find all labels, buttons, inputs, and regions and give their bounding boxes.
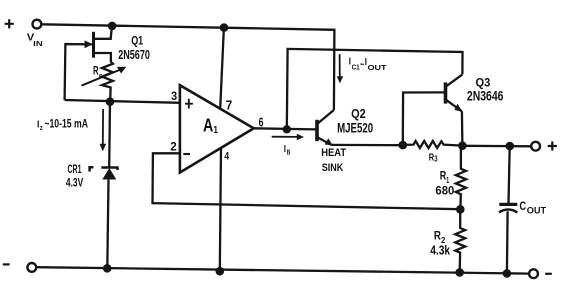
transistor Q2 collector diagonal	[318, 110, 334, 124]
svg-text:Q2: Q2	[351, 106, 366, 121]
svg-text:2: 2	[170, 139, 177, 153]
svg-text:C: C	[519, 199, 526, 213]
plus sign op-amp noninverting input	[185, 99, 193, 109]
node bottom rail R2	[455, 268, 464, 277]
arrow Iz current (down)	[102, 109, 104, 146]
minus sign right output	[545, 273, 552, 275]
transistor Q2 emitter diagonal	[318, 137, 332, 145]
transistor Q3 collector diagonal	[446, 74, 462, 86]
terminal - (bottom left)	[27, 263, 36, 272]
resistor R3	[403, 141, 463, 148]
arrow IB current (right)	[272, 136, 299, 138]
resistor R2 4.3k	[455, 209, 465, 272]
transistor Q3 base bar	[444, 82, 448, 103]
node bottom rail C_OUT	[503, 269, 512, 278]
wire op-amp pin 7 from top rail	[220, 27, 224, 108]
svg-text:Q3: Q3	[476, 75, 491, 89]
wire op-amp pin 4 to bottom rail	[220, 148, 221, 271]
svg-text:SINK: SINK	[322, 162, 344, 174]
svg-text:IN: IN	[33, 41, 43, 48]
node bottom rail pin 4	[216, 267, 225, 276]
resistor Rs (variable, source resistor of Q1)	[102, 62, 113, 102]
wire node A down to zener CR1	[108, 102, 111, 168]
minus sign left input	[3, 263, 10, 265]
svg-text:HEAT: HEAT	[321, 147, 346, 159]
svg-text:OUT: OUT	[527, 205, 546, 216]
wire output node to + output terminal	[462, 145, 531, 148]
wire zener CR1 anode to bottom rail	[107, 180, 108, 269]
resistor R1 680	[456, 146, 466, 210]
svg-text:4: 4	[224, 151, 229, 163]
wire Q1 source lead	[93, 53, 111, 62]
svg-text:680: 680	[435, 183, 454, 197]
node Q3 emitter / R3 right / R1 top	[458, 141, 467, 150]
node op-amp output	[283, 125, 291, 133]
wire Q3 emitter down to R3 right node	[461, 111, 464, 145]
arrowhead Q3 emitter	[454, 104, 462, 112]
node Q2 emitter / Q3 base / R3 left	[399, 141, 408, 150]
arrowhead Q1 gate (JFET arrow)	[85, 40, 93, 48]
svg-text:~10-15 mA: ~10-15 mA	[44, 119, 88, 131]
node A (gate / Rs / zener / pin3)	[106, 97, 115, 106]
wire Q3 base to R3 left node	[403, 92, 444, 145]
svg-text:4.3k: 4.3k	[430, 244, 450, 258]
wire op-amp output pin 6 to Q2 base	[254, 128, 316, 129]
op-amp A1 triangle	[180, 85, 254, 172]
wire C_OUT top lead	[509, 146, 510, 203]
transistor Q3 emitter diagonal	[446, 100, 462, 112]
terminal - output (bottom right)	[529, 269, 538, 278]
svg-text:Q1: Q1	[131, 36, 143, 48]
svg-text:CR1: CR1	[68, 164, 82, 176]
node R1/R2 feedback junction	[456, 205, 465, 214]
svg-text:A: A	[203, 116, 213, 136]
svg-text:MJE520: MJE520	[337, 121, 373, 136]
terminal + output (right)	[531, 142, 540, 151]
svg-text:z: z	[40, 125, 43, 132]
capacitor C_OUT bottom plate (curved)	[499, 210, 517, 213]
wire top rail from Vin terminal to Q2 collector drop	[41, 24, 334, 110]
arrow through Rs (variable resistor arrow)	[82, 70, 121, 86]
svg-text:6: 6	[259, 115, 264, 130]
wire Q1 gate lead and left vertical	[65, 44, 92, 100]
minus sign op-amp inverting input	[183, 153, 190, 155]
plus sign right output	[548, 141, 557, 150]
wire Q1 drain lead	[93, 26, 112, 39]
wire Q2 emitter run to R3	[332, 144, 403, 147]
node top rail pin 7	[220, 23, 229, 32]
terminal Vin + (top left)	[33, 20, 42, 29]
svg-text:3: 3	[171, 89, 177, 103]
svg-text:1: 1	[213, 125, 218, 136]
arrow IC1 current (down)	[339, 54, 341, 79]
svg-text:B: B	[287, 150, 291, 157]
node top rail Q1 drain	[108, 22, 117, 31]
svg-text:7: 7	[226, 99, 233, 113]
node bottom rail zener	[103, 264, 112, 273]
wire C_OUT bottom lead	[506, 211, 509, 273]
plus sign left input	[5, 19, 14, 28]
wire bottom rail	[36, 267, 529, 273]
node C_OUT top	[506, 142, 515, 151]
transistor Q1 channel bar (JFET)	[92, 32, 95, 58]
capacitor C_OUT top plate	[499, 203, 517, 206]
svg-text:2N5670: 2N5670	[118, 47, 150, 62]
zener diode CR1 cathode bar with bent ends	[90, 167, 118, 171]
svg-text:2N3646: 2N3646	[467, 89, 504, 104]
svg-text:OUT: OUT	[368, 63, 387, 72]
transistor Q2 base bar	[315, 120, 319, 141]
wire output node up and over to Q3 collector	[287, 49, 463, 129]
svg-text:s: s	[99, 73, 103, 80]
wire node A horizontal (gate node to op-amp pin 3)	[65, 100, 181, 103]
svg-text:4.3V: 4.3V	[66, 178, 84, 190]
arrowhead Q2 emitter	[325, 138, 333, 145]
zener diode CR1 triangle	[102, 168, 116, 180]
wire op-amp pin 2 feedback loop to R1/R2 junction	[153, 153, 461, 209]
svg-text:C1: C1	[352, 63, 360, 72]
svg-text:3: 3	[434, 155, 438, 164]
